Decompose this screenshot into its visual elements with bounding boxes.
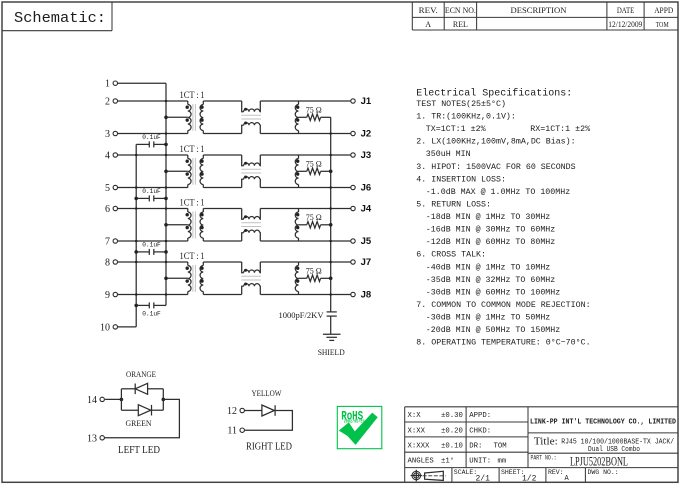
svg-text:2: 2 xyxy=(105,96,110,107)
pin 2 terminal xyxy=(105,96,118,107)
capacitor C1 0.1uF xyxy=(136,134,168,147)
svg-text:J1: J1 xyxy=(361,96,372,107)
svg-text:8: 8 xyxy=(105,257,110,268)
svg-text:2002/95/EC: 2002/95/EC xyxy=(344,419,365,425)
label 75 ohm of R3 xyxy=(306,212,322,222)
label 1CT:1 of T4 xyxy=(180,252,205,262)
svg-text:-30dB MIN @ 60MHz TO 100MHz: -30dB MIN @ 60MHz TO 100MHz xyxy=(426,288,560,298)
svg-text:1CT : 1: 1CT : 1 xyxy=(180,198,205,208)
svg-text:DESCRIPTION: DESCRIPTION xyxy=(511,5,567,15)
pin 3 terminal xyxy=(105,129,118,140)
svg-text:Electrical Specifications:: Electrical Specifications: xyxy=(416,88,572,100)
svg-text:APPD:: APPD: xyxy=(469,412,491,420)
terminal J4 xyxy=(351,204,372,215)
wire T1 secondary bottom to choke L1 xyxy=(203,133,241,135)
svg-text:±0.30: ±0.30 xyxy=(441,412,463,420)
LED D1 ORANGE xyxy=(121,370,163,394)
center-tapped choke CT3 (vertical) xyxy=(295,209,299,242)
wire T3 secondary bottom to choke L3 xyxy=(203,240,241,242)
capacitor C2 0.1uF xyxy=(134,188,167,201)
wire choke L2 bottom to J terminal xyxy=(260,187,351,189)
capacitor C4 0.1uF xyxy=(134,302,166,317)
common-mode choke L3 xyxy=(241,209,261,242)
label RIGHT LED xyxy=(246,442,292,453)
terminal J2 xyxy=(351,129,371,140)
svg-text:mm: mm xyxy=(498,458,507,466)
wire pin 3 to transformer T1 primary bottom xyxy=(118,133,188,135)
svg-text:-20dB MIN @ 50MHz TO 150MHz: -20dB MIN @ 50MHz TO 150MHz xyxy=(426,325,560,335)
wire center tap of T2 primary xyxy=(164,170,188,174)
part number entry xyxy=(531,453,629,468)
svg-text:LINK-PP INT'L TECHNOLOGY CO.,: LINK-PP INT'L TECHNOLOGY CO., LIMITED xyxy=(530,418,676,426)
label 1CT:1 of T1 xyxy=(180,91,205,101)
label 1CT:1 of T3 xyxy=(180,198,205,208)
common-mode choke L4 xyxy=(241,262,261,295)
svg-text:6. CROSS TALK:: 6. CROSS TALK: xyxy=(416,251,486,260)
wire choke L2 top to J terminal xyxy=(260,154,351,156)
pin 6 terminal xyxy=(105,204,118,215)
wire pin 5 to transformer T2 primary bottom xyxy=(118,187,188,189)
svg-text:75 Ω: 75 Ω xyxy=(306,266,322,276)
svg-text:±1°: ±1° xyxy=(441,457,454,466)
svg-text:1CT : 1: 1CT : 1 xyxy=(180,91,205,101)
svg-text:6: 6 xyxy=(105,204,110,215)
wire T4 secondary top to choke L4 xyxy=(203,261,241,263)
transformer T4 xyxy=(186,262,204,295)
pin 5 terminal xyxy=(105,183,118,194)
capacitor C3 0.1uF xyxy=(134,242,167,255)
wire choke L1 top to J terminal xyxy=(260,100,351,102)
node left of LED pair xyxy=(120,389,122,410)
label 75 ohm of R1 xyxy=(306,105,322,115)
wire choke L1 bottom to J terminal xyxy=(260,133,351,135)
svg-text:3: 3 xyxy=(105,129,110,140)
svg-text:DR:: DR: xyxy=(469,442,482,450)
svg-text:±0.10: ±0.10 xyxy=(441,442,463,450)
LED D2 GREEN xyxy=(121,405,163,428)
wire pin 10 to capacitor rail xyxy=(118,326,137,328)
svg-text:1CT : 1: 1CT : 1 xyxy=(180,252,205,262)
svg-text:J4: J4 xyxy=(361,204,372,215)
svg-text:TOM: TOM xyxy=(494,442,507,450)
svg-text:5: 5 xyxy=(105,183,110,194)
svg-text:10: 10 xyxy=(100,322,110,333)
pin 7 terminal xyxy=(105,236,118,247)
LED D3 YELLOW xyxy=(244,389,281,416)
svg-text:REV:: REV: xyxy=(548,469,564,476)
pin 9 terminal xyxy=(105,290,118,301)
transformer T3 xyxy=(186,209,204,242)
ground SHIELD xyxy=(318,334,345,357)
svg-text:0.1uF: 0.1uF xyxy=(142,242,161,249)
terminal J5 xyxy=(351,236,372,247)
svg-text:REL: REL xyxy=(453,20,468,29)
title block xyxy=(405,407,678,483)
wire center tap of T3 primary xyxy=(164,223,188,227)
svg-text:J2: J2 xyxy=(361,129,372,140)
resistor R2 75 ohm xyxy=(299,168,333,174)
pin 8 terminal xyxy=(105,257,118,268)
svg-text:2/1: 2/1 xyxy=(476,475,491,484)
RoHS logo xyxy=(337,406,382,448)
wire pin 4 to transformer T2 primary top xyxy=(118,154,188,156)
wire T2 secondary bottom to choke L2 xyxy=(203,187,241,189)
center-tapped choke CT2 (vertical) xyxy=(295,155,299,188)
svg-text:LPJU5202BONL: LPJU5202BONL xyxy=(570,453,628,468)
wire center tap of T1 primary xyxy=(164,116,188,120)
svg-text:-16dB MIN @ 30MHz TO 60MHz: -16dB MIN @ 30MHz TO 60MHz xyxy=(426,225,555,235)
svg-text:1CT : 1: 1CT : 1 xyxy=(180,145,205,155)
wire choke L4 top to J terminal xyxy=(260,261,351,263)
terminal J3 xyxy=(351,150,371,161)
scale sheet rev dwg entries xyxy=(454,469,619,484)
label 1CT:1 of T2 xyxy=(180,145,205,155)
pin 12 terminal xyxy=(227,406,244,417)
terminal J1 xyxy=(351,96,372,107)
wire center tap of T4 primary xyxy=(164,277,188,281)
pin 14 terminal xyxy=(87,395,104,406)
center-tapped choke CT1 (vertical) xyxy=(295,101,299,134)
svg-text:1. TR:(100KHz,0.1V):: 1. TR:(100KHz,0.1V): xyxy=(416,112,516,122)
label 75 ohm of R2 xyxy=(306,159,322,169)
svg-text:2. LX(100KHz,100mV,8mA,DC Bias: 2. LX(100KHz,100mV,8mA,DC Bias): xyxy=(416,137,575,147)
svg-text:ANGLES: ANGLES xyxy=(408,458,435,466)
svg-text:J7: J7 xyxy=(361,257,372,268)
svg-text:ORANGE: ORANGE xyxy=(126,370,156,379)
svg-text:-30dB MIN @ 1MHz TO 50MHz: -30dB MIN @ 1MHz TO 50MHz xyxy=(426,313,550,323)
svg-text:YELLOW: YELLOW xyxy=(252,389,282,398)
svg-text:DATE: DATE xyxy=(617,5,635,15)
svg-text:X:XX: X:XX xyxy=(408,427,426,435)
svg-text:REV.: REV. xyxy=(419,5,438,15)
svg-text:Schematic:: Schematic: xyxy=(14,9,106,27)
75-ohm common rail (vertical) xyxy=(330,117,332,334)
wire T1 secondary top to choke L1 xyxy=(203,100,241,102)
wire crossing marks xyxy=(135,100,332,296)
svg-text:13: 13 xyxy=(87,433,97,444)
wire pin 2 to transformer T1 primary top xyxy=(118,100,188,102)
tolerance entries xyxy=(408,412,463,465)
label 75 ohm of R4 xyxy=(306,266,322,276)
svg-text:4: 4 xyxy=(105,150,110,161)
svg-text:75 Ω: 75 Ω xyxy=(306,212,322,222)
svg-text:8. OPERATING TEMPERATURE: 0°C~: 8. OPERATING TEMPERATURE: 0°C~70°C. xyxy=(416,339,590,348)
svg-text:LEFT LED: LEFT LED xyxy=(118,445,160,456)
wire pin 8 to transformer T4 primary top xyxy=(118,261,188,263)
svg-text:UNIT:: UNIT: xyxy=(469,458,491,466)
pin 1 terminal xyxy=(105,79,118,90)
wire LED D3 to pin 11 xyxy=(244,411,292,431)
svg-text:J8: J8 xyxy=(361,290,372,301)
svg-text:RIGHT LED: RIGHT LED xyxy=(246,442,292,453)
svg-text:3. HIPOT: 1500VAC FOR 60 SECON: 3. HIPOT: 1500VAC FOR 60 SECONDS xyxy=(416,163,575,172)
svg-text:X:X: X:X xyxy=(408,412,422,420)
svg-text:SHIELD: SHIELD xyxy=(318,347,345,357)
svg-text:7: 7 xyxy=(105,236,110,247)
svg-text:TX=1CT:1 ±2%: TX=1CT:1 ±2% xyxy=(426,125,486,134)
svg-text:J3: J3 xyxy=(361,150,372,161)
svg-text:TOM: TOM xyxy=(656,21,670,29)
pin 11 terminal xyxy=(227,426,244,437)
svg-text:ECN NO.: ECN NO. xyxy=(445,5,476,15)
resistor R1 75 ohm xyxy=(299,114,331,120)
svg-text:-18dB MIN @ 1MHz TO 30MHz: -18dB MIN @ 1MHz TO 30MHz xyxy=(426,212,550,222)
projection symbol xyxy=(411,470,446,482)
svg-text:PART NO.:: PART NO.: xyxy=(531,455,557,462)
svg-text:11: 11 xyxy=(227,426,237,437)
wire choke L3 top to J terminal xyxy=(260,208,351,210)
svg-text:GREEN: GREEN xyxy=(126,419,152,428)
svg-text:-35dB MIN @ 32MHz TO 60MHz: -35dB MIN @ 32MHz TO 60MHz xyxy=(426,275,555,285)
svg-text:12/12/2009: 12/12/2009 xyxy=(608,20,642,29)
wire pin 6 to transformer T3 primary top xyxy=(118,208,188,210)
svg-text:0.1uF: 0.1uF xyxy=(142,188,161,195)
transformer T2 xyxy=(186,155,204,188)
svg-text:9: 9 xyxy=(105,290,110,301)
title entry xyxy=(534,436,675,454)
capacitor common rail (vertical) xyxy=(135,144,137,327)
svg-text:Title:: Title: xyxy=(534,436,558,447)
svg-text:CHKD:: CHKD: xyxy=(469,427,491,435)
svg-text:12: 12 xyxy=(227,406,237,417)
wire T2 secondary top to choke L2 xyxy=(203,154,241,156)
svg-text:DWG NO.:: DWG NO.: xyxy=(588,469,619,476)
common-mode choke L2 xyxy=(241,155,261,188)
wire choke L3 bottom to J terminal xyxy=(260,240,351,242)
electrical specifications text xyxy=(416,88,590,348)
svg-text:SHEET:: SHEET: xyxy=(501,469,524,476)
wire pin 7 to transformer T3 primary bottom xyxy=(118,240,188,242)
pin 13 terminal xyxy=(87,433,104,444)
transformer T1 xyxy=(186,101,204,134)
wire choke L4 bottom to J terminal xyxy=(260,294,351,296)
approval entries xyxy=(469,412,506,465)
title box Schematic xyxy=(2,2,112,31)
svg-text:RX=1CT:1 ±2%: RX=1CT:1 ±2% xyxy=(530,125,590,134)
svg-text:TEST NOTES(25±5°C): TEST NOTES(25±5°C) xyxy=(416,99,506,109)
common-mode choke L1 xyxy=(241,101,261,134)
resistor R4 75 ohm xyxy=(299,275,333,281)
svg-text:A: A xyxy=(425,20,431,29)
wire T3 secondary top to choke L3 xyxy=(203,208,241,210)
company name xyxy=(530,418,676,426)
svg-text:APPD: APPD xyxy=(654,5,673,15)
svg-text:1000pF/2KV: 1000pF/2KV xyxy=(279,311,324,320)
wire T4 secondary bottom to choke L4 xyxy=(203,294,241,296)
svg-text:-40dB MIN @ 1MHz TO 10MHz: -40dB MIN @ 1MHz TO 10MHz xyxy=(426,262,550,272)
svg-text:0.1uF: 0.1uF xyxy=(142,134,161,141)
capacitor C9 1000pF/2KV xyxy=(279,311,337,320)
terminal J6 xyxy=(351,183,371,194)
svg-text:1: 1 xyxy=(105,79,110,90)
svg-text:J6: J6 xyxy=(361,183,372,194)
svg-text:7. COMMON TO COMMON MODE REJEC: 7. COMMON TO COMMON MODE REJECTION: xyxy=(416,301,590,310)
svg-text:X:XXX: X:XXX xyxy=(408,442,431,450)
pin 4 terminal xyxy=(105,150,118,161)
svg-text:75 Ω: 75 Ω xyxy=(306,105,322,115)
label LEFT LED xyxy=(118,445,160,456)
terminal J8 xyxy=(351,290,371,301)
wire pin 9 to transformer T4 primary bottom xyxy=(118,294,188,296)
svg-text:5. RETURN LOSS:: 5. RETURN LOSS: xyxy=(416,201,491,210)
wire pin 1 to center-tap rail xyxy=(118,82,167,84)
center-tap rail (vertical) xyxy=(165,83,167,305)
svg-text:4. INSERTION LOSS:: 4. INSERTION LOSS: xyxy=(416,175,506,184)
svg-text:-1.0dB MAX @ 1.0MHz TO 100MHz: -1.0dB MAX @ 1.0MHz TO 100MHz xyxy=(426,187,570,197)
svg-text:0.1uF: 0.1uF xyxy=(142,311,161,318)
revision table xyxy=(412,2,678,30)
svg-text:350uH MIN: 350uH MIN xyxy=(426,150,471,159)
node right of LED pair xyxy=(162,389,166,410)
svg-text:±0.20: ±0.20 xyxy=(441,427,463,435)
svg-text:14: 14 xyxy=(87,395,97,406)
wire LED pair to pin 13 xyxy=(104,399,179,437)
svg-text:1/2: 1/2 xyxy=(522,475,537,484)
center-tapped choke CT4 (vertical) xyxy=(295,262,299,295)
svg-text:J5: J5 xyxy=(361,236,372,247)
pin 10 terminal xyxy=(100,322,118,333)
svg-text:-12dB MIN @ 60MHz TO 80MHz: -12dB MIN @ 60MHz TO 80MHz xyxy=(426,237,555,247)
wire pin 14 to LED pair xyxy=(105,398,123,402)
svg-text:75 Ω: 75 Ω xyxy=(306,159,322,169)
terminal J7 xyxy=(351,257,371,268)
resistor R3 75 ohm xyxy=(299,222,333,228)
svg-text:SCALE:: SCALE: xyxy=(454,469,477,476)
